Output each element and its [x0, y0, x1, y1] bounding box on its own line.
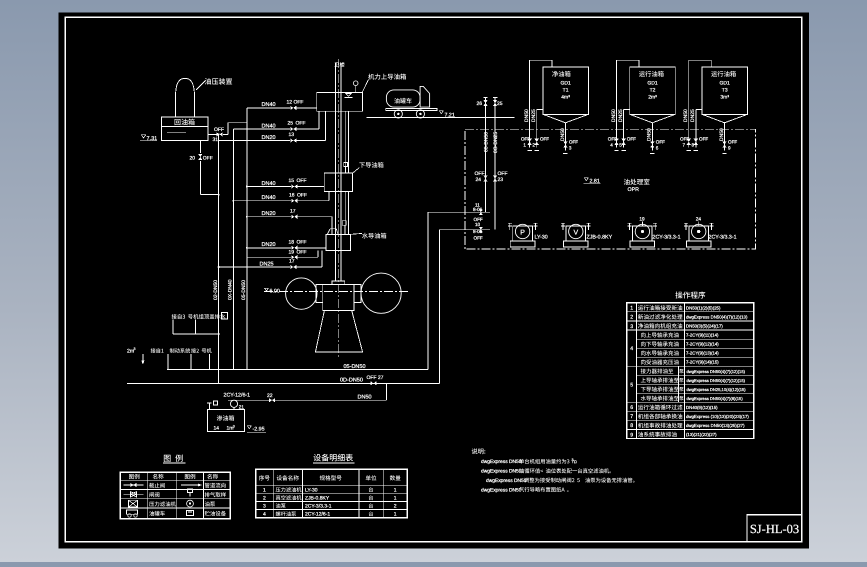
svg-text:24: 24 — [696, 217, 702, 223]
svg-text:2: 2 — [532, 143, 535, 148]
svg-text:dwgExpress DN25,10(4)(12)(15): dwgExpress DN25,10(4)(12)(15) — [687, 387, 747, 392]
svg-text:7: 7 — [630, 414, 633, 420]
svg-text:3: 3 — [630, 324, 633, 330]
svg-text:3: 3 — [263, 503, 266, 509]
svg-text:OFF: OFF — [608, 137, 617, 142]
svg-text:5: 5 — [619, 143, 622, 148]
svg-text:7.21: 7.21 — [445, 112, 455, 118]
svg-text:25: 25 — [288, 121, 294, 127]
svg-text:18: 18 — [289, 239, 295, 245]
svg-text:3: 3 — [569, 146, 572, 151]
svg-text:13: 13 — [289, 132, 295, 138]
svg-text:0G-DN25: 0G-DN25 — [493, 132, 499, 153]
truck cab — [420, 86, 430, 107]
svg-text:dwgExpress DN50(4)(7)(8)(15): dwgExpress DN50(4)(7)(8)(15) — [687, 396, 744, 401]
svg-text:3: 3 — [572, 458, 574, 462]
svg-text:LY-30: LY-30 — [305, 487, 318, 493]
pipe DN20 valve17 — [247, 216, 291, 218]
label upper guide oil tank — [362, 80, 368, 93]
svg-text:2CY-3/3.3-1: 2CY-3/3.3-1 — [709, 235, 737, 241]
room level 2.81 — [585, 178, 589, 181]
svg-text:1: 1 — [394, 495, 397, 501]
svg-text:OFF: OFF — [728, 139, 737, 144]
down corner pipe A — [427, 212, 429, 369]
svg-text:0X-DN40: 0X-DN40 — [228, 279, 234, 300]
svg-text:T2: T2 — [650, 87, 656, 93]
border frame — [65, 17, 801, 542]
legend row2 — [124, 493, 144, 495]
svg-text:4m³: 4m³ — [561, 95, 570, 101]
pipe 05-DN50 horizontal — [167, 369, 428, 371]
side pipes along shaft — [344, 111, 346, 173]
svg-text:OFF: OFF — [521, 137, 530, 142]
svg-text:21: 21 — [239, 404, 245, 409]
svg-text:2CY-3/3.3-1: 2CY-3/3.3-1 — [305, 503, 332, 509]
pipe DN40 valve25 — [233, 128, 290, 130]
svg-text:OFF: OFF — [297, 178, 307, 184]
operation row 4.2 — [641, 341, 679, 346]
operation row 5.1 — [641, 369, 674, 374]
level -2.95 — [248, 426, 252, 429]
svg-text:OFF: OFF — [656, 139, 665, 144]
svg-text:4: 4 — [630, 346, 633, 352]
svg-text:V: V — [573, 229, 578, 236]
svg-text:2m³: 2m³ — [648, 95, 657, 101]
svg-text:5: 5 — [630, 382, 633, 388]
truck tank body — [386, 90, 420, 107]
pump ZJB-0.8KY — [564, 241, 589, 247]
svg-text:dwgExpress DN50(4)(7)(12)(15): dwgExpress DN50(4)(7)(12)(15) — [687, 378, 746, 383]
svg-text:OFF: OFF — [474, 217, 483, 222]
svg-text:DN25: DN25 — [618, 109, 624, 122]
svg-text:8: 8 — [630, 423, 633, 429]
svg-text:OFF: OFF — [627, 137, 636, 142]
svg-text:dwgExpress (10)(13)(20)(23)(17: dwgExpress (10)(13)(20)(23)(17) — [686, 414, 749, 419]
svg-text:2: 2 — [630, 315, 633, 321]
svg-text:-2.95: -2.95 — [253, 427, 265, 433]
svg-text:02-DN50: 02-DN50 — [213, 280, 219, 300]
gauge water tank — [343, 225, 345, 228]
svg-text:05-DN50: 05-DN50 — [241, 280, 247, 300]
tank T1 outlet DN50 — [564, 123, 566, 151]
riser into water tank bottom — [317, 251, 319, 258]
svg-text:6: 6 — [630, 405, 633, 411]
spiral case right — [361, 273, 401, 313]
svg-text:19: 19 — [639, 217, 645, 223]
svg-text:6.00: 6.00 — [270, 288, 280, 294]
level 7.21 — [440, 111, 444, 114]
legend row1 — [124, 484, 144, 486]
operation row 4.1 — [641, 332, 679, 337]
elevation label — [265, 288, 269, 291]
tank bottom drain valve 20 — [199, 140, 201, 153]
drain jog to riser — [200, 194, 218, 196]
svg-text:DN20: DN20 — [262, 135, 276, 141]
svg-text:14: 14 — [214, 425, 220, 431]
gauge upper tank — [355, 86, 357, 93]
svg-text:dwgExpress DN50(13)(25)(27): dwgExpress DN50(13)(25)(27) — [686, 423, 745, 428]
riser to water tank — [331, 217, 333, 235]
lower guide oil tank — [324, 173, 352, 192]
accumulator dome — [176, 78, 195, 117]
pedestal of return tank — [162, 117, 209, 127]
svg-text:OFF: OFF — [569, 139, 578, 144]
svg-text:0D-DN50: 0D-DN50 — [340, 378, 363, 384]
title block — [747, 515, 802, 542]
svg-text:DN40(9)(12)(15): DN40(9)(12)(15) — [686, 405, 718, 410]
svg-text:DN25: DN25 — [260, 261, 274, 267]
operation table outer — [627, 303, 754, 439]
svg-text:00-DN50: 00-DN50 — [483, 132, 489, 152]
svg-text:OFF: OFF — [296, 121, 306, 127]
tank T1 feed DN25 — [537, 108, 543, 110]
label lower guide oil tank — [353, 168, 360, 174]
label water guide oil tank — [350, 233, 361, 234]
valve 31 — [217, 132, 223, 136]
svg-text:dwgExpress DN50: dwgExpress DN50 — [481, 469, 522, 475]
svg-text:DN50: DN50 — [560, 128, 566, 141]
svg-text:DN50: DN50 — [358, 394, 372, 400]
svg-text:OFF: OFF — [203, 156, 213, 162]
svg-text:8: 8 — [692, 143, 695, 148]
svg-text:12 OFF: 12 OFF — [287, 100, 304, 106]
svg-text:2CY-3/3.3-1: 2CY-3/3.3-1 — [653, 235, 681, 241]
svg-text:DN50(3)(5)(24)(17): DN50(3)(5)(24)(17) — [686, 324, 723, 329]
svg-text:4: 4 — [263, 511, 266, 517]
spiral case left — [286, 278, 317, 309]
entry line 11 — [428, 211, 490, 213]
draft tube — [315, 311, 362, 353]
truck wheel 1 — [394, 110, 402, 118]
gauge lower tank — [345, 167, 347, 174]
svg-text:ZJB-0.8KY: ZJB-0.8KY — [587, 235, 613, 241]
svg-text:dwgExpress DN50: dwgExpress DN50 — [481, 459, 522, 465]
drop lines to pipe A — [167, 354, 169, 370]
svg-text:LY-30: LY-30 — [535, 235, 548, 241]
vertical pipe 02-DN50 — [218, 134, 220, 383]
svg-text:OFF: OFF — [297, 192, 307, 198]
svg-text:8-06: 8-06 — [473, 207, 483, 212]
storage tank T2 — [630, 67, 676, 114]
pipe DN40 valve12 — [247, 107, 290, 109]
legend row4 — [127, 510, 138, 514]
operation procedure title — [675, 291, 705, 298]
label from unit 3 — [172, 314, 226, 319]
pipe 0D-DN50 horizontal — [127, 382, 440, 384]
svg-text:OFF: OFF — [680, 137, 689, 142]
turbine shaft cap — [332, 281, 345, 285]
svg-text:DN40: DN40 — [262, 123, 276, 129]
equipment list title — [314, 454, 353, 462]
operation row 5.4 — [641, 396, 679, 401]
riser into tank bottom 2 — [324, 111, 326, 140]
svg-text:7-2CY(9)(11)(14): 7-2CY(9)(11)(14) — [686, 333, 719, 338]
tank T3 outlet DN50 — [724, 123, 726, 151]
svg-text:15: 15 — [289, 178, 295, 184]
truck wheel 2 — [416, 110, 424, 118]
wire tank outlet — [208, 133, 216, 135]
riser into lower tank — [328, 192, 330, 201]
turbine head flange right — [354, 285, 361, 303]
svg-text:1: 1 — [523, 143, 526, 148]
operation row 5.2 — [641, 378, 679, 383]
gear pump 2CY-3/3.3-1 — [686, 241, 711, 247]
svg-text:3: 3 — [233, 424, 235, 428]
svg-text:7-2CY(9)(14)(15): 7-2CY(9)(14)(15) — [686, 360, 719, 365]
svg-text:7-2CY(9)(12)(14): 7-2CY(9)(12)(14) — [686, 342, 719, 347]
tank T1 feed DN50 — [529, 60, 531, 147]
svg-text:DN50: DN50 — [683, 109, 689, 122]
svg-text:7-2CY(9)(13)(14): 7-2CY(9)(13)(14) — [686, 351, 719, 356]
gear pump 2CY-3/3.3-1 — [630, 241, 655, 247]
equipment table — [256, 469, 408, 518]
svg-text:3m³: 3m³ — [720, 95, 729, 101]
drop arrow — [142, 354, 144, 361]
svg-text:DN40: DN40 — [262, 195, 276, 201]
room label OPR — [624, 179, 650, 185]
svg-text:ZJB-0.8KY: ZJB-0.8KY — [305, 495, 330, 501]
unit centerline — [264, 291, 410, 293]
wire jog up — [227, 123, 229, 135]
wire to riser — [223, 133, 228, 135]
legend title — [164, 454, 183, 461]
seep tank gauge — [208, 403, 210, 409]
riser into water tank bottom 2 — [321, 251, 323, 267]
svg-text:22: 22 — [267, 393, 273, 399]
turbine center block — [323, 285, 354, 311]
svg-text:OFF: OFF — [540, 137, 549, 142]
svg-text:GD1: GD1 — [720, 80, 731, 86]
valve 23 on pipe — [493, 176, 497, 182]
svg-text:T3: T3 — [722, 87, 728, 93]
svg-text:2: 2 — [394, 503, 397, 509]
svg-text:GD1: GD1 — [647, 80, 658, 86]
svg-text:17: 17 — [289, 259, 295, 265]
svg-text:dwgExpress DN50: dwgExpress DN50 — [481, 487, 522, 493]
svg-text:DN50: DN50 — [611, 109, 617, 122]
valve 22 on pipe C — [269, 398, 275, 402]
svg-text:dwgExpress DN50: dwgExpress DN50 — [486, 478, 527, 484]
svg-text:17: 17 — [290, 208, 296, 214]
oil processing room boundary — [465, 129, 756, 249]
pump LY-30 — [510, 241, 535, 247]
vertical pipe 05-DN50 — [246, 123, 248, 370]
svg-text:19: 19 — [289, 249, 295, 255]
svg-text:20: 20 — [190, 156, 196, 162]
svg-text:05-DN50: 05-DN50 — [344, 364, 366, 370]
svg-text:6: 6 — [656, 146, 659, 151]
svg-text:26: 26 — [477, 101, 483, 107]
svg-text:OPR: OPR — [628, 187, 640, 193]
unloading pipe 0G-DN25 — [494, 98, 496, 230]
svg-text:OFF: OFF — [297, 239, 307, 245]
valve 27 on pipe B — [371, 381, 377, 385]
riser into tank bottom — [318, 111, 320, 129]
svg-text:2CY-12/6-1: 2CY-12/6-1 — [224, 392, 251, 398]
vertical pipe 0X-DN40 — [232, 129, 234, 370]
svg-text:OFF: OFF — [214, 127, 224, 133]
level 7.31 — [142, 135, 146, 138]
turbine shaft — [335, 63, 337, 281]
legend row3 — [129, 500, 138, 507]
svg-text:P: P — [520, 229, 525, 236]
svg-text:SJ-HL-03: SJ-HL-03 — [750, 522, 799, 536]
svg-text:10: 10 — [475, 222, 481, 227]
svg-text:DN40: DN40 — [262, 102, 276, 108]
pipe valve19 — [247, 256, 291, 258]
svg-text:9: 9 — [728, 146, 731, 151]
upper guide oil tank — [317, 92, 363, 111]
svg-text:dwgExpress DN50(4)(7)(12)(15): dwgExpress DN50(4)(7)(12)(15) — [687, 369, 746, 374]
svg-text:DN25: DN25 — [690, 109, 696, 122]
pipe DN20 valve18 — [247, 247, 291, 249]
svg-text:DN40: DN40 — [262, 181, 276, 187]
truck flatbed — [386, 108, 437, 110]
entry line 10 — [440, 229, 490, 231]
seep pump 2CY-12/6-1 — [230, 400, 237, 407]
shaft centerline — [337, 59, 339, 357]
svg-text:7: 7 — [683, 143, 686, 148]
pipe DN40 valve15 — [247, 186, 291, 188]
svg-text:1: 1 — [630, 306, 633, 312]
svg-text:2CY-12/6-1: 2CY-12/6-1 — [305, 511, 330, 517]
svg-text:(13)(21)(22)(27): (13)(21)(22)(27) — [686, 432, 717, 437]
unloading pipe 00-DN50 — [485, 98, 487, 213]
svg-text:9: 9 — [630, 432, 633, 438]
label oil pressure device — [196, 81, 206, 91]
pipe C to seep tank — [228, 399, 387, 401]
tank T2 cone bottom — [630, 114, 676, 123]
svg-text:DN20: DN20 — [262, 211, 276, 217]
svg-text:3: 3 — [134, 347, 136, 351]
water guide oil tank — [326, 234, 351, 250]
svg-text:31: 31 — [213, 137, 219, 143]
tank T3 cone bottom — [702, 114, 748, 123]
legend table — [120, 472, 230, 519]
ground line — [366, 117, 514, 119]
bracket from unit 3 — [172, 320, 174, 334]
svg-text:1: 1 — [394, 511, 397, 517]
svg-text:DN50: DN50 — [719, 128, 725, 141]
svg-text:DN25: DN25 — [531, 109, 537, 122]
svg-text:dwgExpress DN50(4)(7)(12)(13): dwgExpress DN50(4)(7)(12)(13) — [686, 315, 748, 320]
tank T2 outlet DN50 — [651, 123, 653, 151]
storage tank T1 — [543, 67, 589, 114]
pipe DN20 valve13 — [219, 140, 291, 142]
svg-text:OFF: OFF — [699, 137, 708, 142]
seepage oil tank — [208, 409, 245, 431]
svg-text:1: 1 — [394, 487, 397, 493]
turbine head flange left — [316, 285, 323, 303]
operation row 4.3 — [641, 350, 679, 355]
svg-text:2: 2 — [263, 495, 266, 501]
svg-text:OFF: OFF — [297, 249, 307, 255]
tank T3 feed DN25 — [696, 108, 702, 110]
svg-text:4: 4 — [610, 143, 613, 148]
return oil tank — [162, 126, 209, 140]
operation row 5.3 — [641, 387, 679, 392]
tank T1 cone bottom — [543, 114, 589, 123]
svg-text:16: 16 — [289, 192, 295, 198]
svg-text:T1: T1 — [563, 87, 569, 93]
valve 24 on pipe — [483, 176, 487, 182]
svg-text:23: 23 — [498, 177, 504, 183]
operation row 4.4 — [641, 359, 679, 364]
svg-text:DN20: DN20 — [262, 242, 276, 248]
pipe DN40 valve16 — [233, 200, 291, 202]
svg-text:OFF 27: OFF 27 — [367, 375, 384, 381]
svg-text:25: 25 — [497, 101, 503, 107]
pipe DN25 valve20b — [219, 266, 291, 268]
tank T3 feed DN50 — [688, 60, 690, 147]
tank T2 feed DN25 — [624, 108, 630, 110]
svg-text:DN50: DN50 — [524, 109, 530, 122]
down corner pipe B — [439, 230, 441, 384]
svg-text:GD1: GD1 — [560, 80, 571, 86]
notes title — [472, 448, 486, 454]
svg-text:DN50: DN50 — [647, 128, 653, 141]
tank T2 feed DN50 — [616, 60, 618, 147]
svg-text:OFF: OFF — [474, 236, 483, 241]
storage tank T3 — [702, 67, 748, 114]
svg-text:8-06: 8-06 — [473, 229, 483, 234]
svg-text:DN50(1)(2)(5)(25): DN50(1)(2)(5)(25) — [686, 306, 721, 311]
svg-text:24: 24 — [476, 177, 482, 183]
operation table grid — [627, 311, 754, 313]
svg-text:1: 1 — [263, 487, 266, 493]
